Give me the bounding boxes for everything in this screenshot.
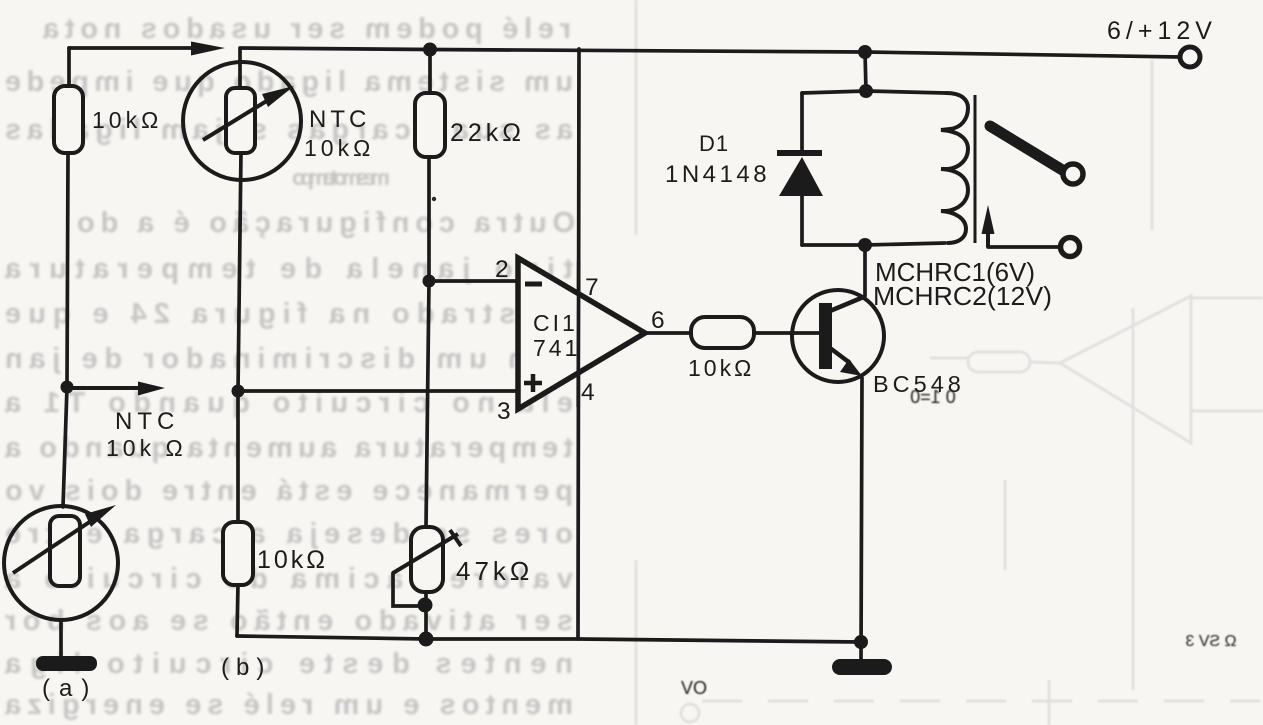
trimmer 47k (411, 527, 443, 592)
wire 22k to node pin2 (427, 156, 431, 281)
ghost bleed-through circuit right side (636, 0, 1263, 725)
wire bottom ground rail (237, 636, 861, 642)
node relay rail (858, 45, 872, 59)
svg-text:Ω SV 3: Ω SV 3 (1185, 633, 1236, 650)
wire left column middle (67, 153, 68, 387)
svg-text:10kΩ: 10kΩ (92, 107, 162, 133)
svg-text:7: 7 (585, 274, 599, 301)
svg-text:tem um discriminador de jan: tem um discriminador de jan (3, 343, 573, 375)
wire NTC (b) top (238, 49, 242, 89)
node wiper (418, 598, 433, 613)
diode D1 1N4148 (777, 150, 822, 156)
svg-text:Outra configuração é a do: Outra configuração é a do (75, 207, 575, 239)
node emitter ground (854, 635, 868, 649)
ink speck (432, 197, 436, 201)
resistor 22k (415, 93, 445, 157)
wire supply vertical through op-amp (578, 49, 579, 639)
wire relay rail drop (865, 52, 866, 91)
wire NTC (b) bottom (238, 152, 241, 391)
wire top supply rail (69, 46, 191, 50)
relay switch arm (990, 126, 1064, 171)
supply terminal 6/+12V (1180, 47, 1200, 67)
svg-text:10kΩ: 10kΩ (688, 355, 754, 381)
svg-text:741: 741 (533, 335, 580, 361)
op-amp inverting input marker (525, 282, 542, 287)
svg-text:permanece está entre dois vo: permanece está entre dois vo (3, 475, 573, 507)
svg-text:BC548: BC548 (873, 371, 965, 397)
wire emitter down (861, 378, 862, 660)
wire diode anode (800, 93, 804, 151)
node relay bottom (858, 238, 872, 252)
relay actuator arrow (986, 231, 990, 247)
wire 22k top (428, 50, 432, 95)
svg-text:22kΩ: 22kΩ (450, 119, 525, 147)
relay lower terminal (1061, 238, 1080, 257)
op-amp U1 741 (518, 258, 645, 409)
node pin2 (423, 275, 436, 288)
svg-text:6: 6 (651, 307, 665, 334)
ghost bleed-through text left column (3, 13, 575, 721)
ground main (832, 659, 892, 675)
arrow on top rail (191, 42, 225, 56)
svg-text:(a): (a) (42, 675, 98, 702)
wire trimmer bottom (424, 592, 428, 639)
resistor 10k base (691, 317, 754, 348)
wire pin 3 input (238, 389, 518, 393)
thermistor NTC (a) bottom-left (4, 506, 118, 620)
node A left (61, 381, 74, 394)
arrow at node A left (73, 386, 142, 390)
svg-text:CI1: CI1 (533, 310, 578, 336)
wire resistor (b) to bottom rail (237, 584, 238, 636)
wire collector to relay node (863, 246, 867, 296)
svg-text:10k Ω: 10k Ω (106, 435, 187, 461)
svg-text:relé podem ser usados nota: relé podem ser usados nota (41, 13, 571, 45)
node 47k bottom rail (419, 632, 434, 647)
wire relay bottom horizontal (802, 243, 945, 245)
svg-text:OV: OV (681, 678, 707, 698)
node 22k top (423, 43, 437, 57)
wire trimmer wiper link (393, 573, 424, 606)
svg-text:NTC: NTC (309, 106, 370, 133)
node B (232, 385, 245, 398)
svg-text:4: 4 (581, 379, 595, 406)
wire op-amp output pin 6 (645, 331, 692, 335)
svg-text:1N4148: 1N4148 (665, 161, 770, 188)
wire node B to resistor (b) (236, 391, 240, 523)
resistor R1 10k top-left (54, 86, 83, 153)
svg-text:D1: D1 (699, 131, 729, 156)
svg-text:3: 3 (497, 398, 511, 425)
svg-text:2: 2 (495, 256, 509, 283)
wire node pin2 down to trimmer (426, 281, 429, 527)
svg-text:(b): (b) (221, 654, 271, 681)
svg-text:47kΩ: 47kΩ (456, 556, 533, 586)
svg-text:6/+12V: 6/+12V (1107, 17, 1217, 45)
thermistor NTC (b) top (183, 62, 301, 180)
transistor Q1 BC548 (792, 290, 884, 382)
svg-text:mesmo tempo: mesmo tempo (290, 165, 390, 190)
wire left column top (67, 48, 71, 88)
svg-text:10kΩ: 10kΩ (304, 135, 374, 161)
svg-text:temperatura aumenta quando a: temperatura aumenta quando a (3, 432, 573, 464)
wire diode cathode down (800, 194, 804, 245)
ground (a) (36, 656, 97, 671)
wire base resistor to transistor (753, 331, 819, 335)
svg-text:MCHRC2(12V): MCHRC2(12V) (873, 281, 1052, 311)
wire switch lower contact (988, 245, 1059, 249)
wire supply vertical segment over op-amp body (576, 261, 580, 407)
wire left column to NTC (a) (63, 387, 67, 507)
relay switch pivot terminal (1063, 164, 1083, 184)
wire relay top horizontal (802, 91, 945, 93)
op-amp non-inverting input marker (524, 381, 542, 386)
wire NTC (a) to ground (59, 620, 63, 657)
relay core line (974, 95, 977, 243)
svg-text:NTC: NTC (115, 408, 179, 435)
resistor 10k (b) (223, 522, 253, 585)
svg-text:10kΩ: 10kΩ (257, 546, 328, 574)
wire pin 2 input (429, 279, 518, 283)
node relay top (859, 84, 873, 98)
relay coil MCHRC (941, 93, 968, 243)
